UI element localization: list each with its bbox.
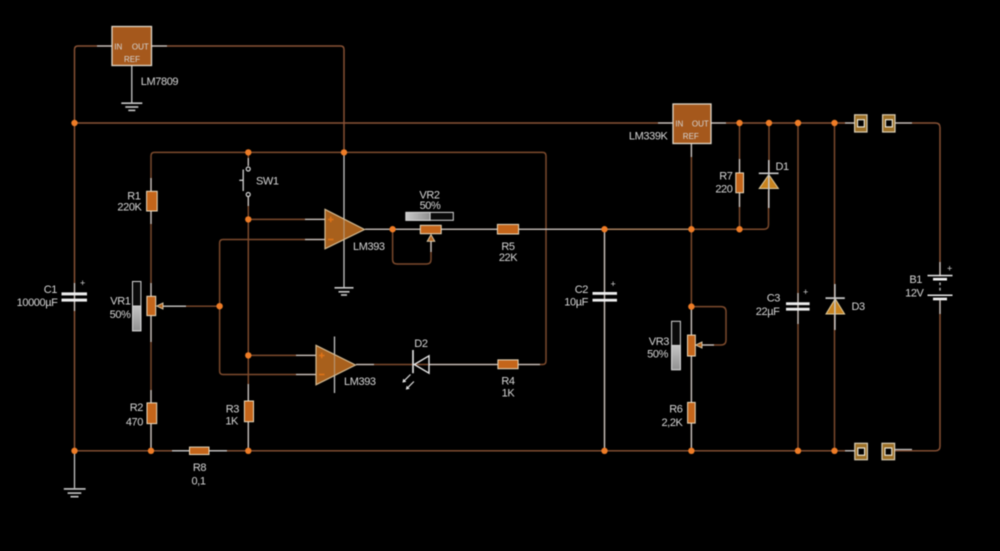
- svg-text:10000µF: 10000µF: [17, 297, 59, 309]
- svg-text:REF: REF: [683, 132, 699, 141]
- svg-text:R2: R2: [130, 402, 144, 414]
- svg-text:SW1: SW1: [256, 176, 279, 188]
- svg-text:50%: 50%: [110, 309, 131, 321]
- svg-text:R7: R7: [719, 170, 733, 182]
- svg-text:C1: C1: [44, 284, 58, 296]
- svg-text:LM393: LM393: [344, 376, 376, 388]
- svg-text:C2: C2: [575, 284, 589, 296]
- svg-text:R3: R3: [226, 404, 240, 416]
- svg-text:22K: 22K: [499, 252, 518, 264]
- svg-text:VR3: VR3: [649, 336, 669, 348]
- svg-text:LM393: LM393: [353, 241, 385, 253]
- svg-text:+: +: [611, 279, 616, 289]
- svg-text:1K: 1K: [225, 415, 239, 427]
- svg-text:50%: 50%: [647, 348, 668, 360]
- svg-text:D3: D3: [852, 301, 866, 313]
- svg-text:+: +: [80, 278, 85, 288]
- svg-text:VR1: VR1: [110, 295, 130, 307]
- svg-text:+: +: [803, 287, 808, 297]
- svg-text:2,2K: 2,2K: [661, 417, 683, 429]
- svg-text:R1: R1: [127, 190, 141, 202]
- svg-text:220K: 220K: [117, 202, 142, 214]
- svg-text:+: +: [947, 264, 952, 274]
- svg-text:470: 470: [126, 417, 143, 429]
- svg-text:0,1: 0,1: [191, 475, 205, 487]
- svg-text:LM7809: LM7809: [141, 76, 179, 88]
- svg-text:OUT: OUT: [692, 119, 709, 128]
- svg-text:50%: 50%: [420, 200, 441, 212]
- svg-text:IN: IN: [114, 42, 122, 51]
- svg-text:10µF: 10µF: [564, 296, 588, 308]
- svg-text:R4: R4: [501, 376, 515, 388]
- svg-text:IN: IN: [675, 119, 683, 128]
- svg-text:OUT: OUT: [132, 42, 149, 51]
- svg-text:R8: R8: [193, 462, 207, 474]
- svg-text:D2: D2: [414, 338, 428, 350]
- svg-text:22µF: 22µF: [756, 306, 780, 318]
- svg-text:D1: D1: [776, 161, 790, 173]
- svg-text:C3: C3: [767, 292, 781, 304]
- svg-text:B1: B1: [909, 274, 922, 286]
- svg-text:220: 220: [715, 183, 732, 195]
- svg-text:R6: R6: [669, 403, 683, 415]
- svg-text:LM339K: LM339K: [629, 131, 669, 143]
- svg-text:REF: REF: [124, 55, 140, 64]
- svg-text:R5: R5: [501, 241, 515, 253]
- svg-text:1K: 1K: [502, 388, 516, 400]
- svg-text:12V: 12V: [905, 288, 924, 300]
